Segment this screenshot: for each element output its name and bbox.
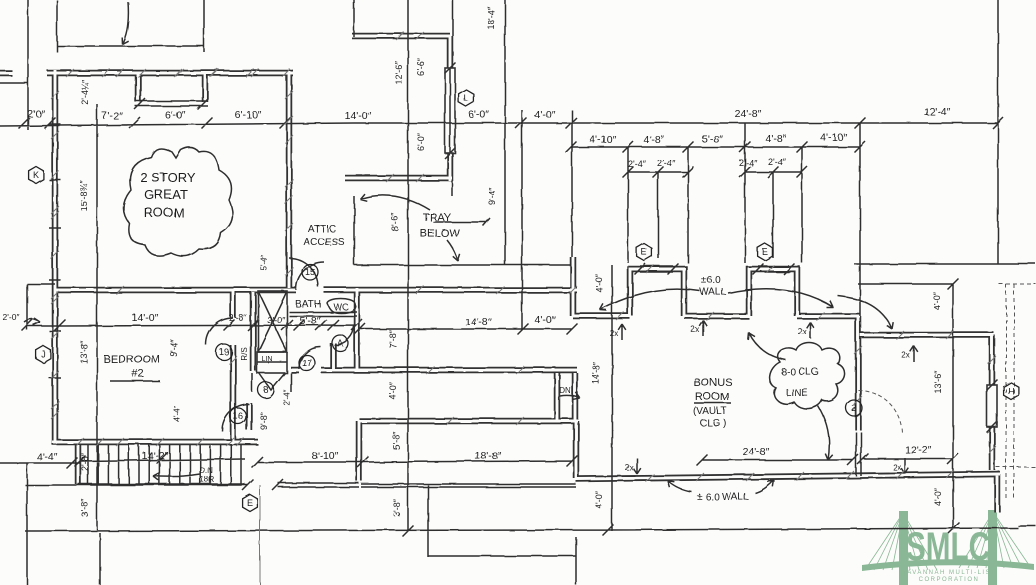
svg-text:2x: 2x	[625, 463, 633, 472]
svg-text:7'-2″: 7'-2″	[102, 110, 123, 122]
svg-text:TRAY: TRAY	[423, 212, 452, 224]
svg-text:SAVANNAH MULTI-LIST: SAVANNAH MULTI-LIST	[902, 570, 997, 576]
svg-text:4'-8″: 4'-8″	[644, 134, 665, 146]
svg-text:2'-4″: 2'-4″	[739, 158, 758, 168]
svg-text:ROOM: ROOM	[695, 391, 729, 403]
svg-text:4'-4″: 4'-4″	[173, 406, 182, 422]
svg-text:19: 19	[219, 347, 229, 357]
svg-text:4'-4″: 4'-4″	[37, 451, 58, 463]
svg-text:E: E	[641, 247, 647, 257]
svg-text:4'-0″: 4'-0″	[933, 487, 943, 506]
svg-text:K: K	[33, 170, 39, 180]
svg-text:14'-8″: 14'-8″	[465, 316, 492, 328]
svg-text:BONUS: BONUS	[693, 377, 732, 389]
svg-text:2x: 2x	[798, 327, 806, 336]
svg-text:J: J	[41, 349, 46, 359]
svg-text:ROOM: ROOM	[144, 205, 184, 220]
svg-text:4'-0″: 4'-0″	[594, 490, 604, 509]
svg-text:6'-0″: 6'-0″	[469, 109, 490, 121]
svg-text:8'-10″: 8'-10″	[312, 450, 339, 462]
svg-text:13'-6″: 13'-6″	[933, 370, 943, 394]
svg-text:GREAT: GREAT	[144, 187, 188, 202]
svg-text:A: A	[337, 338, 343, 348]
svg-text:5'-8″: 5'-8″	[702, 133, 723, 145]
svg-text:14'-0″: 14'-0″	[132, 312, 159, 324]
svg-text:SMLC: SMLC	[906, 525, 990, 569]
svg-text:4'-10″: 4'-10″	[821, 132, 848, 144]
svg-text:5'-8″: 5'-8″	[300, 315, 321, 327]
svg-text:6'-6″: 6'-6″	[416, 57, 426, 76]
svg-text:6'-10″: 6'-10″	[235, 109, 262, 121]
svg-text:4'-8″: 4'-8″	[766, 133, 787, 145]
svg-text:8: 8	[263, 385, 268, 395]
svg-text:3'-8″: 3'-8″	[80, 498, 90, 517]
svg-text:2 STORY: 2 STORY	[140, 170, 195, 185]
svg-text:4'-0″: 4'-0″	[535, 314, 556, 326]
svg-text:2: 2	[851, 403, 856, 413]
svg-text:R/S: R/S	[240, 347, 249, 360]
svg-text:2x: 2x	[610, 329, 618, 338]
svg-text:WALL: WALL	[700, 287, 727, 298]
svg-text:2'-0″: 2'-0″	[3, 312, 20, 322]
svg-text:H: H	[1008, 386, 1015, 396]
svg-text:2'-4″: 2'-4″	[283, 390, 292, 406]
svg-text:8-0 CLG: 8-0 CLG	[781, 367, 819, 378]
svg-text:± 6.0 WALL: ± 6.0 WALL	[697, 492, 749, 503]
svg-text:2'0″: 2'0″	[27, 108, 45, 120]
svg-text:6'-0″: 6'-0″	[165, 109, 186, 121]
svg-text:L: L	[463, 93, 468, 103]
svg-text:(VAULT: (VAULT	[693, 406, 727, 417]
svg-text:CORPORATION: CORPORATION	[919, 577, 980, 583]
svg-text:D.N: D.N	[199, 466, 213, 475]
svg-text:#2: #2	[132, 368, 144, 380]
svg-text:CLG ): CLG )	[700, 418, 727, 429]
svg-text:2'-4″: 2'-4″	[768, 157, 787, 167]
svg-text:4'-0″: 4'-0″	[932, 291, 942, 310]
svg-text:E: E	[762, 247, 768, 257]
svg-text:14'-8″: 14'-8″	[591, 361, 601, 385]
svg-text:2'-8″: 2'-8″	[229, 313, 248, 323]
svg-text:2'-8″: 2'-8″	[80, 452, 90, 471]
svg-text:ATTIC: ATTIC	[308, 224, 336, 235]
svg-text:2'-4″: 2'-4″	[657, 158, 676, 168]
svg-text:4'-0″: 4'-0″	[388, 381, 398, 400]
svg-text:±6.0: ±6.0	[701, 275, 721, 286]
svg-text:2'-4″: 2'-4″	[628, 159, 647, 169]
svg-text:12'-4″: 12'-4″	[924, 106, 951, 118]
svg-text:BELOW: BELOW	[420, 228, 460, 240]
svg-text:2'-4¼″: 2'-4¼″	[80, 78, 90, 104]
svg-text:13'-8″: 13'-8″	[79, 340, 89, 364]
svg-text:7'-8″: 7'-8″	[388, 329, 398, 348]
svg-text:18R: 18R	[200, 475, 215, 484]
svg-text:9'-4″: 9'-4″	[169, 338, 179, 357]
svg-text:4'-0″: 4'-0″	[535, 109, 556, 121]
svg-text:2x: 2x	[902, 351, 910, 360]
svg-text:12'-2″: 12'-2″	[905, 444, 932, 456]
svg-text:2x: 2x	[893, 463, 901, 472]
svg-text:15: 15	[305, 267, 315, 277]
svg-text:9'-4″: 9'-4″	[487, 186, 497, 205]
svg-text:BEDROOM: BEDROOM	[104, 354, 161, 366]
svg-text:3'-8″: 3'-8″	[392, 498, 402, 517]
svg-text:E: E	[247, 498, 253, 508]
svg-text:2x: 2x	[691, 325, 699, 334]
svg-text:LINE: LINE	[786, 388, 809, 399]
svg-text:14'-2″: 14'-2″	[142, 450, 169, 462]
svg-text:4'-0″: 4'-0″	[594, 273, 604, 292]
svg-text:5'-4″: 5'-4″	[260, 255, 269, 271]
svg-text:24'-8″: 24'-8″	[743, 446, 770, 458]
svg-text:BATH: BATH	[295, 299, 321, 310]
svg-text:DN: DN	[559, 386, 571, 395]
svg-text:WC: WC	[334, 302, 349, 312]
svg-text:6'-0″: 6'-0″	[416, 132, 426, 151]
svg-text:5'-8″: 5'-8″	[392, 431, 402, 450]
svg-text:12'-6″: 12'-6″	[394, 61, 404, 85]
svg-text:8'-6″: 8'-6″	[390, 212, 400, 231]
svg-text:18'-4″: 18'-4″	[486, 6, 496, 30]
svg-text:16: 16	[233, 411, 243, 421]
svg-text:9'-8″: 9'-8″	[259, 411, 269, 430]
svg-text:18'-8″: 18'-8″	[475, 450, 502, 462]
svg-text:4'-10″: 4'-10″	[590, 134, 617, 146]
svg-text:LIN: LIN	[262, 356, 273, 363]
svg-text:17: 17	[302, 358, 312, 368]
svg-text:24'-8″: 24'-8″	[735, 108, 762, 120]
svg-text:15'-8¾″: 15'-8¾″	[79, 180, 89, 211]
svg-text:ACCESS: ACCESS	[303, 237, 344, 248]
svg-text:14'-0″: 14'-0″	[345, 110, 372, 122]
svg-text:3'-0″: 3'-0″	[267, 315, 286, 325]
